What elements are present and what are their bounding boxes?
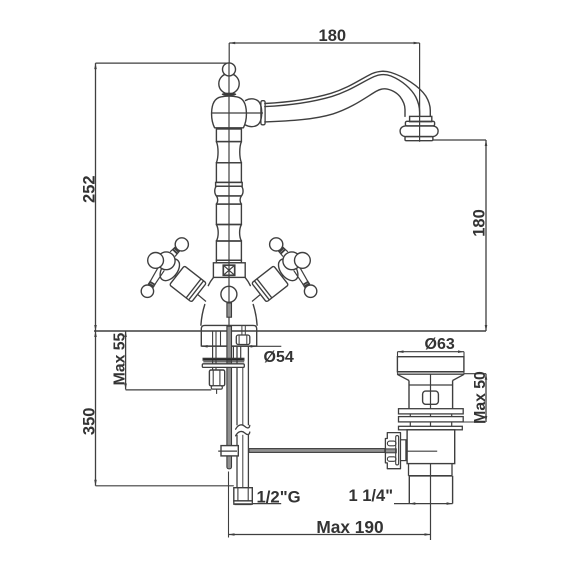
dimension Max 55 (deck thickness) [111, 331, 211, 390]
washer plate [202, 364, 244, 368]
waste square hole [423, 391, 439, 404]
svg-text:350: 350 [80, 408, 98, 436]
dimension Max 50 (basin thickness) [462, 371, 489, 424]
washer thin line [203, 361, 244, 363]
supply connector 1/2 inch [234, 488, 253, 505]
horizontal linkage rod (gray) [249, 449, 385, 453]
washer dark bar [203, 358, 244, 360]
label 1/2"G (supply thread) [234, 487, 301, 506]
waste ring 1 [399, 409, 464, 414]
waste flange shade band [397, 372, 464, 375]
svg-text:180: 180 [319, 27, 347, 45]
dimension 180 (spout reach) top [229, 27, 419, 117]
svg-text:Max 50: Max 50 [472, 371, 489, 424]
pop-up lift knob ball [221, 286, 237, 302]
svg-text:Max 190: Max 190 [316, 517, 383, 537]
shank collar stubs [233, 347, 240, 359]
body right shoulder [245, 278, 250, 286]
spout outlet collar [410, 116, 432, 121]
dimension 252 (height) left [80, 63, 229, 331]
waste ring 3 [399, 426, 463, 430]
svg-text:Ø63: Ø63 [425, 336, 455, 353]
column section I [216, 241, 241, 260]
base flange [201, 325, 256, 346]
column waist H [216, 225, 241, 242]
spout outlet bulge [400, 126, 438, 137]
column section G [216, 204, 241, 224]
spout hub [246, 99, 266, 127]
finial small ball [223, 63, 236, 76]
faucet body dome [212, 96, 247, 128]
spout outlet ring [405, 121, 434, 126]
waste tail section [409, 464, 453, 476]
threaded stud lines [213, 347, 216, 370]
finial collar [222, 93, 237, 96]
base interior fitting box [236, 326, 250, 345]
waste flange taper [397, 374, 464, 380]
dimension Max 190 (waste offset) [229, 472, 431, 538]
body left shoulder [208, 278, 213, 286]
dimension 350 (supply length) [80, 331, 234, 486]
supply pipe center line [242, 368, 244, 488]
base interior thread hatch [213, 331, 221, 347]
dimension 1 1/4" (waste thread) [349, 487, 453, 505]
supply pipe left wall [236, 347, 238, 489]
waste knurled nut [385, 433, 400, 469]
column waist B [216, 142, 241, 163]
column ring D [216, 182, 243, 186]
column section C [216, 163, 241, 183]
spout outlet centerline [419, 116, 421, 141]
waste lower body [407, 430, 455, 464]
waste nut connector piece [401, 440, 406, 461]
waste ring 2 [399, 417, 464, 422]
pipe break symbol [236, 425, 250, 436]
rod clamp block [221, 446, 238, 456]
column section J [216, 260, 241, 263]
left handle (cold) cross head and valve [141, 238, 206, 303]
body left lower side [201, 305, 205, 326]
pop-up knob stem (gray) [227, 303, 232, 317]
column bead E [215, 186, 243, 196]
svg-text:Max 55: Max 55 [111, 332, 128, 385]
clamp horizontal pin [218, 450, 237, 452]
waste tailpipe [409, 476, 452, 504]
aerator box with X symbol [213, 263, 245, 278]
pop-up rod (gray) [227, 326, 232, 469]
faucet vertical centerline [228, 63, 230, 326]
waste rod line [400, 450, 437, 452]
dimension Ø54 (base diameter) [202, 345, 294, 366]
right handle (hot) cross head and valve [251, 238, 316, 303]
waste body between rings [410, 414, 451, 426]
finial large ball [219, 74, 239, 94]
svg-text:1 1/4": 1 1/4" [349, 487, 394, 505]
body horizontal centerline [212, 112, 263, 114]
supply pipe right wall [247, 347, 249, 489]
waste top flange [397, 357, 464, 372]
mounting nut [209, 370, 224, 394]
spout middle line [265, 75, 420, 117]
column cove F [216, 196, 241, 204]
body right lower side [253, 305, 257, 326]
spout top edge [265, 71, 431, 116]
waste upper body [409, 381, 453, 409]
column section A [216, 129, 241, 142]
dimension Ø63 (waste flange diameter) [398, 336, 465, 357]
waste centerline [430, 361, 432, 540]
spout outlet bottom ring [405, 137, 433, 141]
svg-text:180: 180 [470, 209, 488, 237]
deck / mounting surface line [94, 330, 486, 332]
svg-text:252: 252 [80, 175, 98, 203]
svg-text:Ø54: Ø54 [264, 349, 294, 366]
dimension 180 (spout height) right [433, 140, 488, 331]
spout bottom edge [265, 89, 405, 122]
svg-text:1/2"G: 1/2"G [257, 487, 301, 506]
